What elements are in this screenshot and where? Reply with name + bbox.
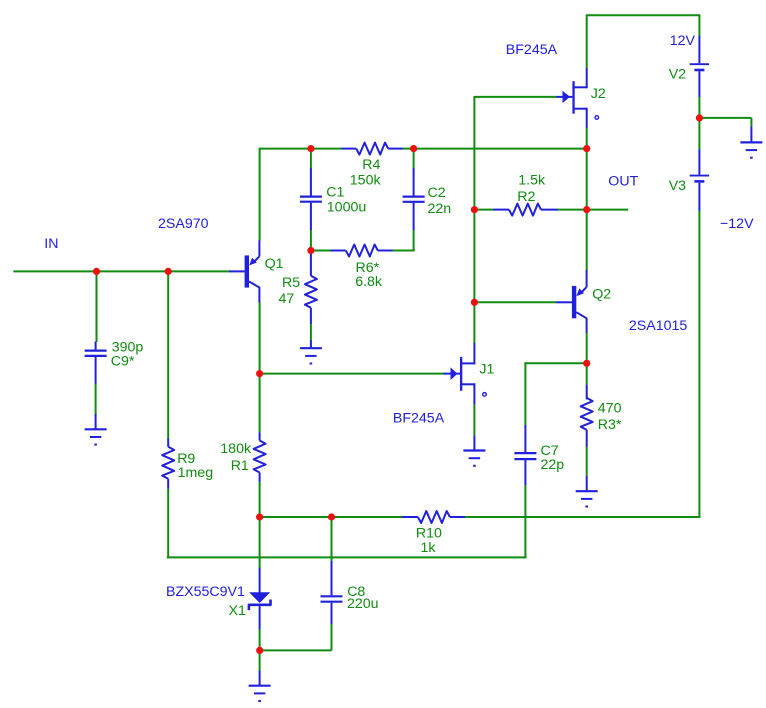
wire C7 column bottom — [524, 485, 526, 559]
resistor R9 — [167, 439, 169, 447]
wire R3 bottom gap — [586, 447, 588, 476]
resistor R4 — [342, 148, 356, 150]
wire C2 leads column — [413, 149, 415, 169]
wire zener bottom to node — [259, 629, 261, 671]
wire Q2 collector to R3 node — [586, 333, 588, 364]
wire C1 leads column — [310, 149, 312, 169]
svg-text:47: 47 — [279, 291, 295, 307]
svg-text:220u: 220u — [347, 596, 379, 612]
battery V3 — [698, 149, 700, 175]
junction R1 bottom / R10 row — [256, 513, 263, 520]
junction C1 bottom / R5 / R6 — [307, 247, 314, 254]
wire C8 column bottom — [331, 624, 333, 651]
wire J1 source gap — [473, 405, 475, 436]
svg-text:22p: 22p — [541, 457, 565, 473]
junction C8 top — [328, 513, 335, 520]
ground R5 — [310, 340, 312, 348]
ground zener — [259, 671, 261, 686]
svg-text:J2: J2 — [591, 86, 606, 102]
svg-text:2SA970: 2SA970 — [158, 216, 209, 232]
transistor Q2 — [556, 301, 572, 303]
svg-text:470: 470 — [598, 401, 622, 417]
resistor R3 — [586, 385, 588, 400]
svg-text:V2: V2 — [669, 67, 686, 83]
svg-text:150k: 150k — [350, 173, 382, 189]
svg-text:12V: 12V — [670, 33, 696, 49]
wire R9 drop — [167, 271, 169, 438]
svg-text:Q1: Q1 — [265, 256, 284, 272]
junction OUT node — [583, 206, 590, 213]
capacitor C2 — [413, 168, 415, 196]
wire R6 row — [311, 250, 331, 252]
zener diode X1 — [259, 568, 261, 593]
wire J1 gate horizontal — [260, 373, 444, 375]
svg-text:6.8k: 6.8k — [355, 274, 383, 290]
wire R9 bottom to y557 — [167, 489, 169, 559]
junction IN/R9 — [165, 268, 172, 275]
wire J2 drain up — [586, 14, 588, 68]
resistor R6 — [331, 250, 346, 252]
wire V2/V3 node to ground — [699, 117, 751, 119]
wire J2 gate horizontal — [474, 96, 556, 98]
svg-text:BF245A: BF245A — [506, 42, 558, 58]
svg-text:1meg: 1meg — [178, 465, 214, 481]
junction R4 left / C1 top — [307, 145, 314, 152]
svg-text:1000u: 1000u — [327, 199, 366, 215]
wire R2 row left — [474, 209, 493, 211]
junction zener bottom / C8 bottom — [256, 647, 263, 654]
wire node top y148 (R4/C1/C2/J2-source net) — [260, 148, 342, 150]
junction Q2 base / J1 drain — [471, 299, 478, 306]
junction R4 right / C2 top — [410, 145, 417, 152]
wire R1 bottom to R10 row — [259, 482, 261, 517]
svg-text:V3: V3 — [669, 178, 686, 194]
wire R10 row right to -12V rail — [465, 516, 701, 518]
wire IN horizontal — [13, 270, 230, 272]
svg-text:1.5k: 1.5k — [518, 172, 546, 188]
junction J2 source node — [583, 145, 590, 152]
wire R5 bottom gap — [310, 324, 312, 340]
wire C8 column top — [331, 516, 333, 562]
wire V2-V3 middle — [698, 97, 700, 149]
ground J1 — [473, 435, 475, 450]
J2 source marker — [595, 116, 599, 120]
wire Q1 emitter to top node — [259, 148, 261, 241]
capacitor C8 — [331, 561, 333, 595]
junction Q2 collector / R3 top — [583, 360, 590, 367]
wire OUT stub — [587, 209, 629, 211]
junction V2/V3 ground node — [696, 114, 703, 121]
svg-text:2SA1015: 2SA1015 — [629, 318, 687, 334]
capacitor C1 — [310, 168, 312, 196]
JFET J1 — [460, 357, 462, 391]
svg-text:J1: J1 — [479, 361, 494, 377]
svg-text:1k: 1k — [421, 540, 437, 556]
wire bottom long y557 — [167, 556, 527, 558]
svg-text:IN: IN — [44, 236, 58, 252]
wire R2 row right — [558, 209, 587, 211]
wire J2 source / OUT column to Q2 emitter — [586, 128, 588, 271]
svg-text:C1: C1 — [326, 185, 344, 201]
JFET J2 — [572, 81, 574, 114]
svg-text:X1: X1 — [229, 603, 246, 619]
transistor Q1 — [229, 270, 245, 272]
svg-text:BZX55C9V1: BZX55C9V1 — [166, 584, 245, 600]
svg-text:R3*: R3* — [598, 417, 622, 433]
ground C9 — [95, 414, 97, 429]
wire V2 top lead — [698, 15, 700, 36]
battery V2 — [698, 36, 700, 64]
wire R3 top gap — [586, 363, 588, 384]
junction IN/C9 — [93, 268, 100, 275]
resistor R10 — [402, 516, 418, 518]
wire R10 row left — [260, 516, 403, 518]
junction R2 left — [471, 206, 478, 213]
J1 source marker — [483, 393, 487, 397]
resistor R2 — [493, 209, 509, 211]
wire Q2 base horizontal — [474, 301, 556, 303]
wire -12V rail — [698, 211, 700, 518]
wire ground stub right — [750, 118, 752, 127]
svg-text:180k: 180k — [220, 441, 252, 457]
ground R3 — [586, 476, 588, 492]
junction Q1 collector / J1 gate — [256, 370, 263, 377]
resistor R1 — [259, 432, 261, 440]
capacitor C7 — [524, 425, 526, 452]
wire J2-gate column down to J1 drain — [473, 96, 475, 343]
capacitor C9 — [95, 342, 97, 350]
ground right supply — [750, 127, 752, 143]
resistor R5 — [310, 253, 312, 276]
svg-text:OUT: OUT — [608, 173, 638, 189]
wire Q1 collector down to J1-gate node and R1 — [259, 302, 261, 432]
wire C9 drop — [96, 271, 98, 342]
svg-text:−12V: −12V — [720, 216, 754, 232]
svg-text:R1: R1 — [231, 458, 249, 474]
svg-text:Q2: Q2 — [592, 287, 611, 303]
svg-text:R2: R2 — [517, 189, 535, 205]
wire C7 to R3 node — [524, 362, 586, 364]
wire C7 column top — [524, 362, 526, 425]
svg-text:BF245A: BF245A — [393, 411, 445, 427]
wire C9 to ground gap — [95, 383, 97, 414]
wire zener to C8 bottom — [260, 649, 332, 651]
wire top rail to V2 — [587, 14, 701, 16]
wire R10 node down to zener — [259, 517, 261, 568]
svg-text:C9*: C9* — [111, 354, 135, 370]
svg-text:22n: 22n — [428, 201, 452, 217]
svg-text:C2: C2 — [428, 185, 446, 201]
svg-text:R4: R4 — [362, 157, 380, 173]
svg-text:R5: R5 — [282, 275, 300, 291]
